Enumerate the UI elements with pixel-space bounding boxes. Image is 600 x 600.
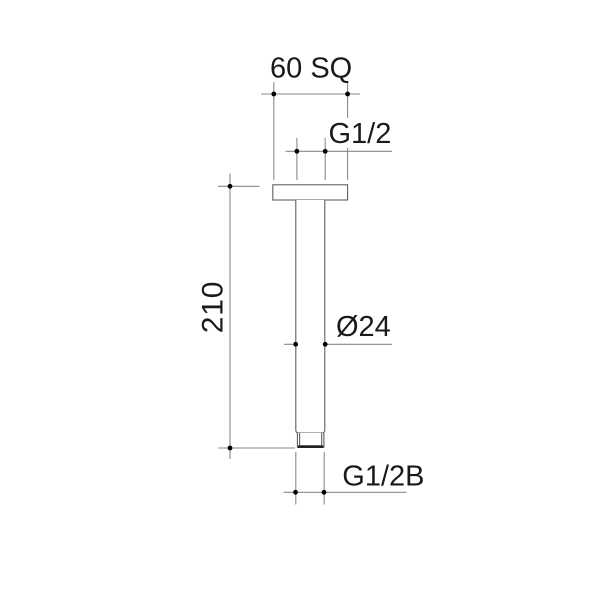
dimension line G1/2 [286, 150, 393, 152]
tip bottom thick edge [298, 445, 323, 448]
extension line 60SQ left [273, 82, 275, 180]
dot G1/2B right [322, 490, 327, 495]
dimension line G1/2B [284, 491, 407, 493]
svg-text:60 SQ: 60 SQ [270, 53, 352, 85]
dot Ø24 right [323, 342, 328, 347]
extension line 60SQ right [347, 82, 349, 180]
dot Ø24 left [293, 342, 298, 347]
dimension line 60 SQ [261, 93, 360, 95]
svg-text:210: 210 [197, 281, 230, 333]
dot G1/2B left [293, 490, 298, 495]
tick 210 bottom [218, 447, 295, 449]
dot 210 top [228, 184, 233, 189]
dot 60SQ left [271, 92, 276, 97]
threaded tip outer [297, 433, 324, 447]
dot G1/2 right [323, 149, 328, 154]
extension line G1/2 left [296, 138, 298, 180]
extension line G1/2B left [295, 452, 297, 505]
dimension line 210 vertical [229, 174, 231, 460]
dot 60SQ right [345, 92, 350, 97]
dot G1/2 left [295, 149, 300, 154]
ceiling flange plate [273, 185, 348, 200]
svg-text:Ø24: Ø24 [336, 311, 391, 343]
extension line G1/2B right [323, 452, 325, 505]
dimension line Ø24 [284, 343, 392, 345]
threaded tip inner thread lines [300, 433, 322, 445]
dimension dots [228, 92, 350, 495]
dot 210 bottom [228, 446, 233, 451]
white halo mask behind G1/2 label [329, 118, 393, 148]
pipe body [296, 200, 325, 433]
shower arm outline [273, 185, 348, 448]
tick 210 top [218, 185, 260, 187]
svg-text:G1/2: G1/2 [329, 118, 392, 150]
extension line G1/2 right [324, 138, 326, 180]
svg-text:G1/2B: G1/2B [342, 460, 424, 492]
